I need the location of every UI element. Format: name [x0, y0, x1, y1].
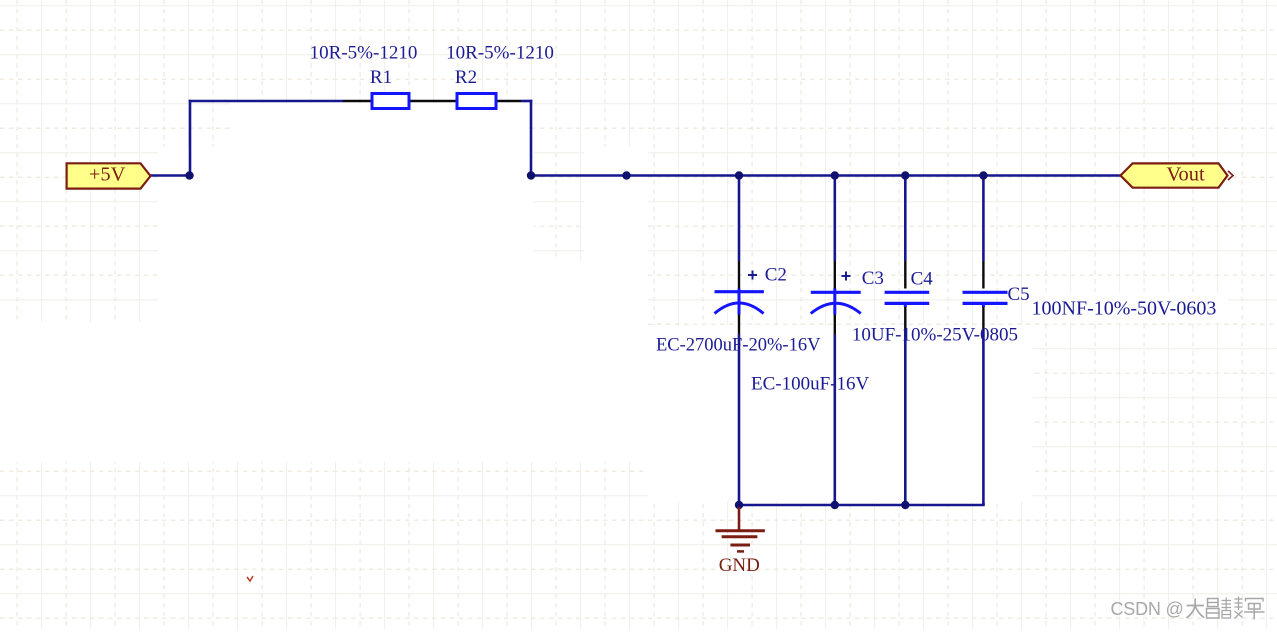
C2 designator	[765, 265, 787, 286]
capacitor C3	[811, 272, 861, 314]
wire C5 branch	[982, 177, 985, 506]
capacitor C2	[715, 271, 764, 314]
wire resistor row horizontal	[189, 100, 343, 103]
svg-text:C3: C3	[862, 268, 884, 289]
svg-text:C2: C2	[765, 265, 787, 286]
wire main bus	[531, 174, 1121, 177]
junction at +5V	[185, 171, 193, 179]
svg-text:CSDN @: CSDN @	[1111, 599, 1184, 619]
C5 designator	[1008, 284, 1030, 305]
wire C4 branch	[904, 177, 907, 506]
wire ground bus	[739, 503, 985, 505]
svg-text:EC-2700uF-20%-16V: EC-2700uF-20%-16V	[656, 336, 821, 356]
svg-text:EC-100uF-16V: EC-100uF-16V	[751, 374, 870, 395]
svg-text:R2: R2	[455, 67, 477, 88]
R1 value 10R-5%-1210	[310, 43, 418, 64]
junction C3 bottom	[831, 501, 839, 509]
power flag Vout	[1121, 163, 1234, 187]
C4 designator	[911, 269, 934, 290]
C2 value EC-2700uF-20%-16V	[656, 336, 821, 356]
GND label	[719, 555, 760, 576]
wire C3 branch	[833, 177, 836, 506]
C3 value EC-100uF-16V	[751, 374, 870, 395]
junction C5 top	[979, 171, 987, 179]
junction C2 top	[735, 171, 743, 179]
junction at x=531	[527, 171, 535, 179]
resistor R1	[343, 94, 456, 109]
R1 designator	[370, 67, 392, 88]
svg-text:C5: C5	[1008, 284, 1030, 305]
svg-text:10UF-10%-25V-0805: 10UF-10%-25V-0805	[852, 325, 1018, 346]
capacitor C4	[885, 292, 930, 303]
resistor R2	[457, 94, 521, 109]
svg-text:Vout: Vout	[1166, 164, 1205, 186]
wire corner segment to x=531	[521, 100, 532, 103]
R2 value 10R-5%-1210	[446, 43, 554, 64]
svg-text:C4: C4	[911, 269, 934, 290]
R2 designator	[455, 67, 477, 88]
power flag +5V	[67, 163, 151, 188]
junction at x=626	[622, 171, 630, 179]
svg-text:10R-5%-1210: 10R-5%-1210	[310, 43, 418, 64]
junction C4 top	[901, 171, 909, 179]
junction C3 top	[831, 171, 839, 179]
C4 value 10UF-10%-25V-0805	[852, 325, 1018, 346]
watermark CSDN	[1111, 597, 1265, 620]
svg-text:10R-5%-1210: 10R-5%-1210	[446, 43, 554, 64]
wire +5V flag to junction	[151, 174, 191, 177]
capacitor C5	[963, 292, 1008, 303]
junction C2 bottom	[735, 501, 743, 509]
junction C4 bottom	[901, 501, 909, 509]
svg-text:GND: GND	[719, 555, 760, 576]
wire vertical at x=531	[530, 100, 533, 177]
svg-text:R1: R1	[370, 67, 392, 88]
wire C2 branch	[738, 177, 741, 506]
svg-text:+5V: +5V	[89, 164, 126, 186]
C3 designator	[862, 268, 884, 289]
svg-text:100NF-10%-50V-0603: 100NF-10%-50V-0603	[1032, 298, 1217, 320]
wire vertical at x=190	[189, 100, 192, 177]
C5 value 100NF-10%-50V-0603	[1032, 298, 1217, 320]
ground	[716, 507, 765, 551]
